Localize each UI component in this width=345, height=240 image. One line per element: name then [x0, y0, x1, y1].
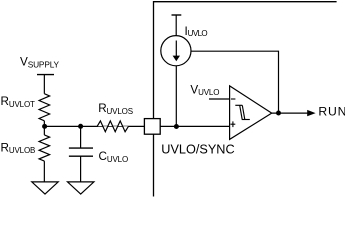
wire RUVLOB to ground [43, 161, 45, 182]
current source IUVLO [161, 36, 191, 66]
svg-text:RUVLOB: RUVLOB [1, 141, 36, 155]
junction pin node dot [174, 124, 179, 129]
resistor RUVLOS [97, 121, 128, 132]
IC block border [154, 2, 337, 197]
junction capacitor dot [78, 124, 83, 129]
wire CUVLO to ground [80, 156, 82, 182]
wire capacitor tap [80, 126, 82, 148]
svg-text:VUVLO: VUVLO [190, 83, 219, 97]
current source arrow [173, 41, 180, 62]
junction output dot [276, 111, 281, 116]
pin square UVLO/SYNC [144, 119, 160, 135]
op-amp U1 comparator [230, 86, 272, 139]
svg-text:RUN: RUN [318, 105, 345, 119]
svg-text:IUVLO: IUVLO [185, 25, 208, 38]
node VSUPPLY terminal bar [37, 74, 54, 76]
ground (divider) [32, 182, 58, 194]
svg-text:RUVLOS: RUVLOS [98, 102, 133, 116]
wire node A to pin [44, 125, 144, 127]
wire supply bar to current source [175, 15, 177, 36]
svg-text:VSUPPLY: VSUPPLY [20, 56, 60, 70]
svg-text:CUVLO: CUVLO [99, 150, 129, 164]
ground (capacitor) [68, 182, 94, 194]
wire RUVLOT to node A [43, 121, 45, 135]
hysteresis symbol [235, 105, 250, 119]
wire comparator output to RUN [272, 112, 309, 114]
wire VUVLO to comparator minus input [209, 98, 230, 100]
svg-text:RUVLOT: RUVLOT [1, 95, 36, 109]
wire current source to output node [191, 51, 279, 113]
plus sign [231, 121, 236, 127]
wire VSUPPLY to RUVLOT [43, 75, 45, 94]
output arrowhead [307, 110, 315, 116]
resistor RUVLOT [39, 94, 50, 121]
resistor RUVLOB [39, 135, 50, 161]
svg-text:UVLO/SYNC: UVLO/SYNC [161, 143, 234, 157]
capacitor CUVLO [69, 148, 93, 156]
wire pin to comparator [160, 125, 229, 127]
wire current source to pin node [175, 66, 177, 127]
node IUVLO supply bar [172, 14, 182, 16]
minus sign [231, 98, 236, 100]
junction node A dot [42, 124, 47, 129]
